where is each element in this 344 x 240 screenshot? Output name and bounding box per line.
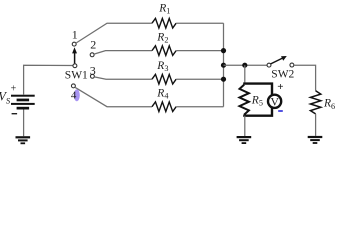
node 4 circle [71, 84, 75, 88]
wire R1 to bus [176, 22, 223, 24]
wire R5 loop to ground [244, 116, 246, 136]
resistor R6 [310, 91, 320, 114]
junction dot bus/tap [221, 63, 226, 68]
wire bus to SW2 [224, 64, 268, 66]
junction dot R5 branch [242, 63, 247, 68]
SW1 blade arrow [72, 47, 77, 63]
wire node1 to R1 [76, 23, 152, 43]
node 2 circle [90, 53, 94, 57]
SW2 left circle [267, 63, 271, 67]
resistor R2 [152, 46, 176, 56]
bus wire (right vertical) [223, 23, 225, 107]
wire battery top to SW1 common [24, 65, 73, 95]
SW2 right circle [290, 63, 294, 67]
svg-text:V: V [270, 94, 279, 108]
resistor R1 [152, 18, 176, 28]
battery VS [11, 95, 35, 110]
wire R2 to bus [176, 50, 223, 52]
SW2 blade arrow [271, 56, 287, 64]
wire node3 to R3 [94, 77, 152, 79]
svg-text:+: + [11, 84, 17, 95]
svg-text:SW1: SW1 [65, 70, 88, 82]
ground (R6) [308, 136, 323, 144]
voltmeter - label [278, 110, 283, 112]
junction dot bus/R3 [221, 77, 226, 82]
wire node2 to R2 [94, 51, 152, 55]
svg-text:SW2: SW2 [271, 69, 294, 81]
node 3 circle [90, 74, 94, 78]
wire node4 to R4 [75, 87, 152, 106]
node 1 circle [72, 42, 76, 46]
wire R6 to ground [315, 114, 317, 136]
resistor R5 [240, 85, 249, 115]
wire SW2 to R6 [294, 65, 316, 91]
ground (R5) [237, 136, 252, 144]
svg-text:+: + [277, 81, 283, 93]
svg-text:3: 3 [90, 63, 96, 77]
resistor R3 [152, 74, 176, 84]
wire R3 to bus [176, 78, 223, 80]
resistor R4 [152, 102, 176, 112]
node 4 highlight [74, 89, 80, 101]
voltmeter U1 circle [268, 95, 281, 108]
battery - label [12, 113, 18, 114]
svg-text:4: 4 [71, 89, 77, 101]
SW1 common pole circle [73, 64, 77, 68]
R5/voltmeter loop top wire [243, 84, 272, 95]
junction dot bus/R2 [221, 48, 226, 53]
svg-text:2: 2 [90, 38, 96, 52]
wire down to R5 loop [244, 65, 246, 82]
ground (battery) [16, 136, 31, 144]
R5/voltmeter loop bottom wire [243, 108, 272, 116]
wire R4 to bus [176, 106, 223, 108]
svg-text:1: 1 [72, 28, 78, 42]
wire battery bottom to ground [23, 110, 25, 137]
